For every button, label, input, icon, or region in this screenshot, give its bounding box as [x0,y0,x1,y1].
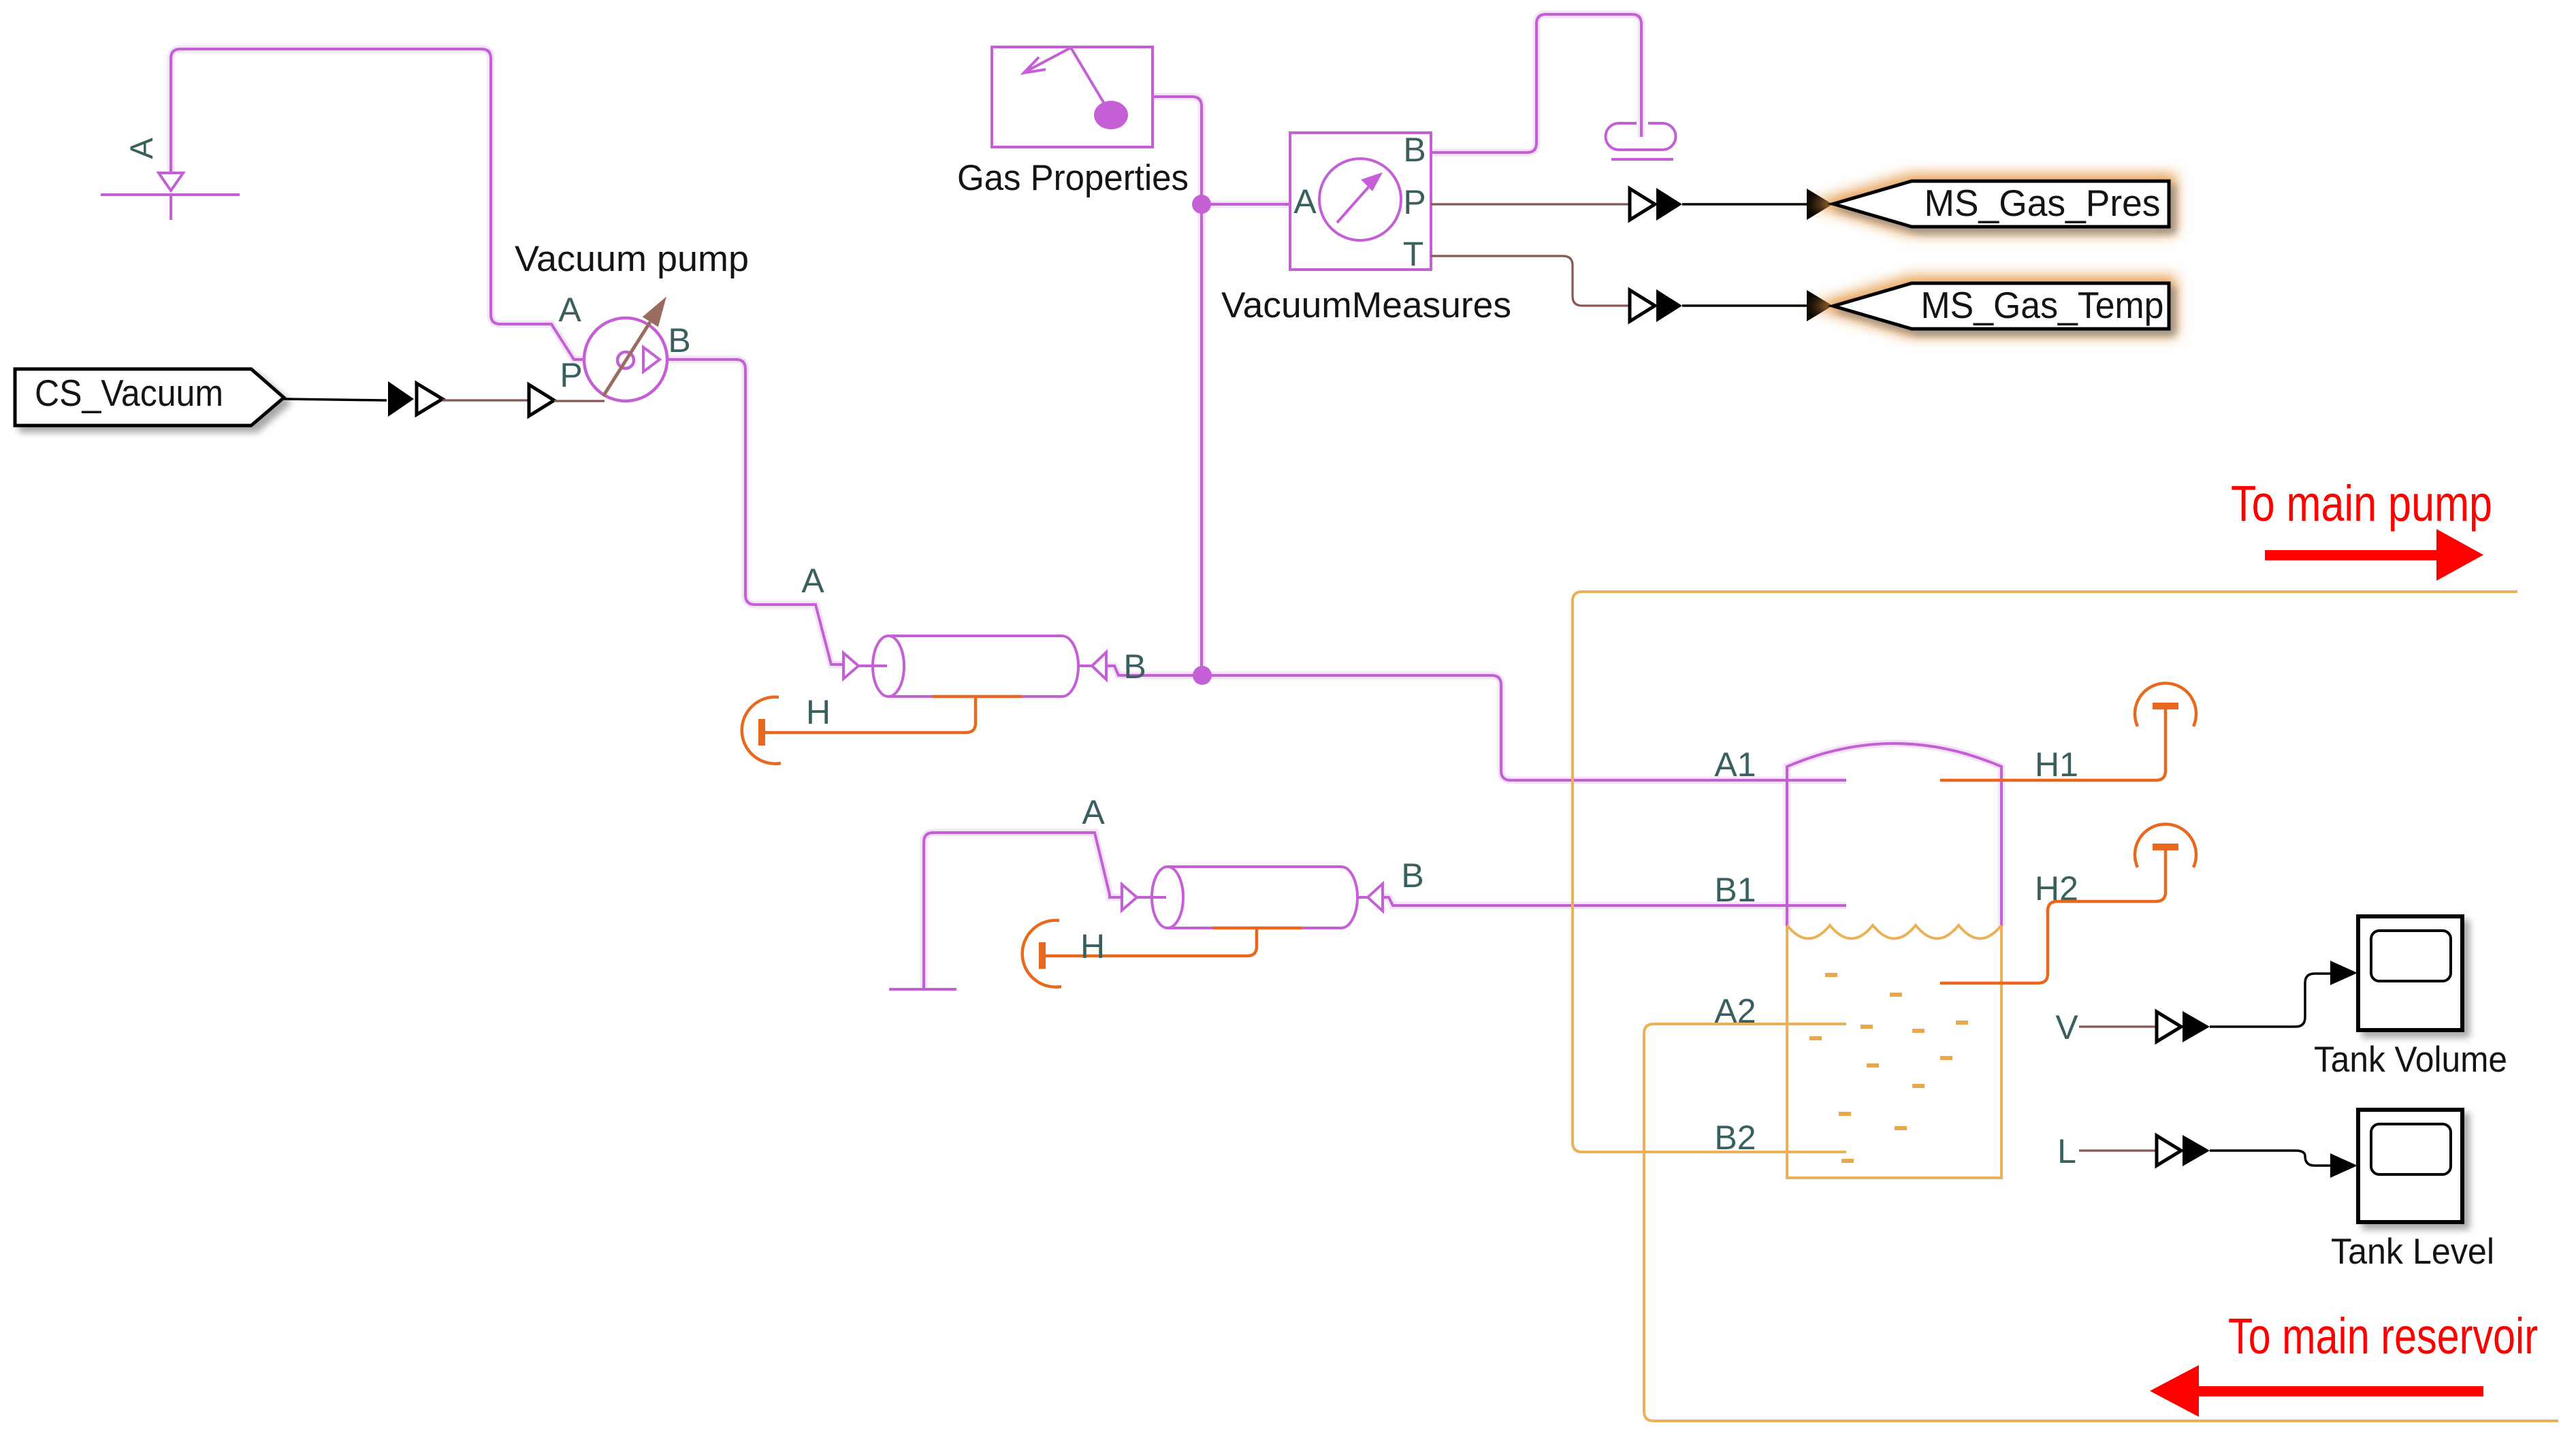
svg-text:A1: A1 [1714,746,1756,784]
svg-text:L: L [2057,1132,2076,1170]
svg-text:Tank Level: Tank Level [2331,1232,2494,1272]
svg-text:A: A [123,138,159,159]
svg-text:Vacuum pump: Vacuum pump [515,239,749,279]
svg-text:MS_Gas_Temp: MS_Gas_Temp [1921,284,2164,326]
svg-text:H: H [1080,927,1105,965]
svg-text:B: B [1401,856,1423,895]
svg-text:T: T [1403,235,1424,273]
svg-text:To main reservoir: To main reservoir [2228,1308,2538,1364]
svg-text:V: V [2055,1008,2078,1046]
svg-text:B: B [668,321,690,359]
svg-text:P: P [1403,183,1426,221]
svg-text:H: H [806,693,831,731]
svg-text:Tank Volume: Tank Volume [2314,1040,2507,1080]
svg-text:To main pump: To main pump [2231,475,2492,532]
svg-text:B: B [1403,131,1426,169]
svg-text:B1: B1 [1714,871,1756,909]
svg-text:A: A [1293,182,1317,221]
svg-text:P: P [560,356,582,394]
svg-text:VacuumMeasures: VacuumMeasures [1221,285,1511,325]
svg-text:A: A [801,562,824,600]
svg-text:H1: H1 [2035,746,2078,784]
svg-text:A: A [1082,793,1105,831]
svg-text:B: B [1123,647,1146,686]
svg-text:Gas Properties: Gas Properties [957,158,1189,198]
svg-text:MS_Gas_Pres: MS_Gas_Pres [1925,182,2161,224]
svg-text:CS_Vacuum: CS_Vacuum [35,372,223,414]
svg-text:A: A [558,291,581,329]
